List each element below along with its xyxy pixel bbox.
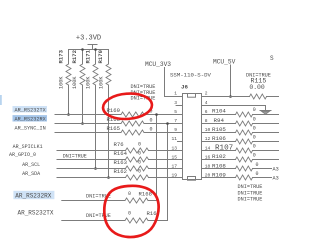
svg-text:R173: R173 (58, 49, 65, 63)
svg-text:R168: R168 (139, 191, 152, 198)
left edge pale bar (0, 95, 2, 105)
connector J6 SSM-110-S-DV (170, 72, 212, 181)
junction v1-pin5 row (155, 113, 158, 116)
resistor R171 (84, 49, 98, 89)
svg-text:+3.3VD: +3.3VD (76, 35, 101, 43)
svg-text:R106: R106 (212, 135, 226, 142)
svg-text:0: 0 (253, 116, 256, 122)
resistor R106 (202, 135, 279, 145)
resistor R163 (114, 159, 149, 171)
svg-text:AR_RS232TX: AR_RS232TX (15, 107, 47, 113)
svg-text:3: 3 (174, 100, 177, 106)
wire R172 lead down to RX row (82, 85, 84, 124)
svg-text:15: 15 (171, 154, 177, 160)
wire R171 lead down to SCL row (95, 85, 97, 169)
resistor R169 (107, 107, 153, 117)
svg-text:0: 0 (253, 153, 256, 159)
junction R170-SDA (107, 176, 110, 179)
wire R170 lead down to SDA row (108, 85, 110, 178)
svg-text:R104: R104 (212, 108, 226, 115)
wire AR_RS232RX bottom row (62, 200, 125, 202)
svg-text:R94: R94 (214, 117, 225, 124)
resistor R167 (125, 210, 160, 223)
svg-text:0: 0 (253, 125, 256, 131)
svg-text:DNI=TRUE: DNI=TRUE (238, 184, 263, 190)
svg-text:17: 17 (171, 164, 177, 170)
svg-text:DNI=TRUE: DNI=TRUE (238, 197, 263, 203)
svg-text:0: 0 (128, 210, 131, 216)
wire pin2 row (202, 96, 250, 98)
red annotation circle around R169 R166 (102, 92, 153, 121)
svg-text:0: 0 (253, 144, 256, 150)
power symbol +3.3VD (76, 35, 101, 50)
resistor R168 (125, 191, 152, 204)
svg-text:R172: R172 (71, 49, 78, 63)
wire AR_GPIO_0 row (57, 159, 126, 161)
svg-text:19: 19 (171, 173, 177, 179)
svg-text:R109: R109 (212, 171, 226, 178)
wire R166 to pin7 (144, 123, 183, 125)
svg-text:0: 0 (150, 118, 153, 124)
svg-text:11: 11 (171, 136, 177, 142)
svg-text:R107: R107 (215, 145, 233, 153)
resistor R94 (202, 116, 279, 126)
wire R162 to pin19 (149, 177, 183, 179)
svg-text:0: 0 (138, 150, 141, 156)
wire MCU_5V to pin2 row (230, 65, 232, 97)
resistor R104 (202, 107, 279, 117)
svg-text:MCU_3V3: MCU_3V3 (145, 61, 171, 68)
svg-text:AR_SCL: AR_SCL (22, 162, 40, 168)
node AR_RS232TX (13, 106, 48, 113)
pin 11 (171, 136, 182, 142)
svg-text:AR_GPIO_0: AR_GPIO_0 (9, 152, 36, 158)
node AR_RS232RX (13, 115, 48, 122)
wire AR_RS232RX row (55, 123, 121, 125)
svg-text:R170: R170 (97, 49, 104, 63)
node AR_RS232RX bottom (13, 191, 54, 200)
resistor R108 (202, 162, 272, 171)
wire AR_SPICLK1 row (57, 150, 126, 152)
svg-text:R102: R102 (212, 153, 226, 160)
resistor R105 (202, 125, 279, 135)
svg-text:A3: A3 (273, 166, 279, 172)
wire pin4 to gnd (202, 106, 266, 111)
svg-text:R165: R165 (107, 125, 120, 132)
svg-text:R108: R108 (212, 162, 226, 169)
junction rail-R171 (94, 48, 97, 51)
wire pullup rail (69, 49, 109, 51)
svg-text:AR_RS232RX: AR_RS232RX (15, 193, 51, 200)
wire R163 to pin17 (149, 168, 183, 170)
svg-text:J6: J6 (181, 84, 188, 91)
svg-text:DNI=TRUE: DNI=TRUE (238, 190, 263, 196)
svg-text:100K: 100K (98, 76, 104, 89)
svg-text:A3: A3 (273, 175, 279, 181)
junction R171-SCL (94, 167, 97, 170)
wire R169 to pin5 (144, 114, 183, 116)
svg-text:R171: R171 (84, 49, 91, 63)
svg-text:7: 7 (174, 118, 177, 124)
resistor R162 (114, 168, 149, 180)
svg-text:2: 2 (205, 91, 208, 97)
svg-text:0: 0 (150, 127, 153, 133)
wire R165 to pin9 (144, 132, 183, 134)
svg-text:0: 0 (253, 135, 256, 141)
wire R168 to crossover v1 (148, 115, 157, 201)
wire R173 lead down to TX row (68, 85, 70, 115)
svg-text:13: 13 (171, 145, 177, 151)
svg-text:R105: R105 (212, 126, 226, 133)
svg-text:R76: R76 (114, 141, 124, 148)
junction MCU_5V-pin2 (229, 95, 232, 98)
junction rail-R172 (81, 48, 84, 51)
svg-text:0: 0 (256, 162, 259, 168)
resistor R172 (71, 49, 85, 89)
svg-text:0: 0 (256, 171, 259, 177)
svg-text:0: 0 (138, 169, 141, 175)
resistor R164 (114, 150, 149, 162)
resistor R173 (58, 49, 72, 89)
wire AR_SCL row (57, 168, 126, 170)
svg-text:100K: 100K (59, 76, 65, 89)
wire MCU_3V3 to pin1 (165, 68, 183, 97)
wire AR_RS232TX bottom row (62, 220, 125, 222)
wire R164 to pin15 (149, 159, 183, 161)
wire R76 to pin13 (149, 150, 183, 152)
svg-text:0.00: 0.00 (249, 84, 265, 91)
svg-text:R163: R163 (114, 159, 127, 166)
resistor R170 (97, 49, 111, 89)
svg-text:9: 9 (174, 127, 177, 133)
resistor R107 (202, 144, 279, 153)
svg-text:R169: R169 (107, 107, 120, 114)
svg-text:S: S (270, 55, 274, 62)
svg-text:SSM-110-S-DV: SSM-110-S-DV (170, 72, 212, 79)
svg-text:0: 0 (138, 160, 141, 166)
resistor R165 (107, 125, 153, 135)
resistor R76 (114, 141, 149, 153)
junction R173-TX (67, 113, 70, 116)
wire AR_RS232TX row (55, 114, 121, 116)
svg-text:0: 0 (253, 107, 256, 113)
pin 3 (174, 100, 182, 106)
svg-text:AR_SDA: AR_SDA (22, 171, 40, 177)
svg-text:0: 0 (128, 191, 131, 197)
svg-text:1: 1 (174, 91, 177, 97)
wire AR_SYNC_IN row (55, 132, 121, 134)
svg-text:AR_RS232RX: AR_RS232RX (15, 117, 47, 123)
svg-text:100K: 100K (86, 76, 92, 89)
junction v2-pin7 row (166, 122, 169, 125)
wire R115 out (267, 96, 280, 98)
svg-text:100K: 100K (72, 76, 78, 89)
svg-text:MCU_5V: MCU_5V (213, 59, 236, 66)
svg-text:AR_SPICLK1: AR_SPICLK1 (13, 144, 43, 150)
svg-text:0: 0 (138, 141, 141, 147)
ground (260, 111, 271, 115)
svg-text:AR_RS232TX: AR_RS232TX (18, 210, 54, 217)
wire R167 to crossover v2 (148, 124, 168, 221)
svg-text:4: 4 (205, 100, 208, 106)
svg-text:DNI=TRUE: DNI=TRUE (63, 154, 87, 160)
resistor R115 (246, 72, 271, 99)
junction R172-RX (81, 122, 84, 125)
wire AR_SDA row (57, 177, 126, 179)
resistor R166 (107, 116, 153, 126)
red annotation circle around R168 R167 (104, 186, 158, 237)
resistor R109 (202, 171, 272, 180)
svg-text:DNI=TRUE: DNI=TRUE (86, 213, 111, 219)
svg-text:5: 5 (174, 109, 177, 115)
svg-text:R162: R162 (114, 168, 127, 175)
resistor R102 (202, 153, 279, 162)
svg-text:AR_SYNC_IN: AR_SYNC_IN (15, 126, 46, 132)
svg-text:R164: R164 (114, 150, 128, 157)
